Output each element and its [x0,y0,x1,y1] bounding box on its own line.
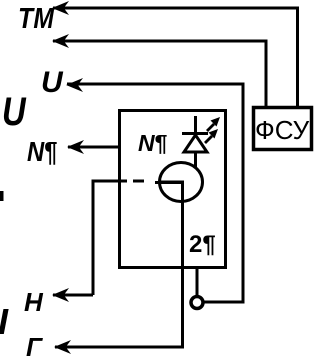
svg-text:Н: Н [24,287,44,317]
svg-text:Г: Г [26,332,43,362]
svg-text:N¶: N¶ [27,135,57,167]
svg-text:U: U [41,66,64,99]
svg-text:ТМ: ТМ [18,2,54,34]
svg-text:2¶: 2¶ [189,231,216,258]
svg-text:U: U [2,89,27,134]
svg-text:N¶: N¶ [138,130,168,156]
svg-text:I: I [0,301,9,342]
svg-text:ФСУ: ФСУ [255,115,310,145]
